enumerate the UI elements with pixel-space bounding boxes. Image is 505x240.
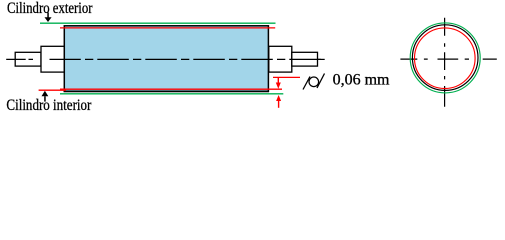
svg-text:0,06 mm: 0,06 mm	[333, 71, 390, 88]
svg-text:Cilindro exterior: Cilindro exterior	[7, 0, 93, 17]
svg-text:Cilindro interior: Cilindro interior	[6, 97, 92, 114]
